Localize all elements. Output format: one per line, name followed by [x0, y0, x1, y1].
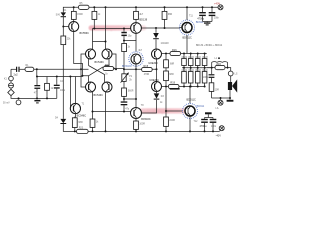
node rail dots	[73, 6, 75, 8]
svg-text:4700u: 4700u	[197, 18, 205, 21]
inductor L1 loop	[212, 57, 228, 67]
ground bar input	[34, 100, 40, 104]
wire output mid rail	[182, 67, 212, 69]
wire emitter bridge top pair	[93, 19, 106, 49]
resistor R8	[162, 7, 172, 28]
wire +V cap join / ground	[203, 21, 213, 24]
terminal shield	[9, 81, 14, 88]
svg-text:0R22: 0R22	[202, 70, 208, 72]
resistor R1 input	[25, 65, 34, 71]
svg-text:5V6: 5V6	[56, 15, 61, 17]
wire input line	[34, 68, 89, 70]
svg-text:2R2: 2R2	[216, 63, 221, 66]
resistor R17	[164, 54, 175, 72]
speaker LS1	[228, 76, 237, 98]
svg-text:+40V: +40V	[214, 2, 220, 6]
resistor R5 horizontal top	[78, 5, 89, 9]
wire driver top base line	[162, 53, 171, 55]
svg-text:R23: R23	[79, 127, 84, 129]
resistor R13 (tail bottom)	[90, 119, 99, 131]
svg-text:1N4148: 1N4148	[161, 43, 170, 45]
svg-text:BC546C: BC546C	[122, 64, 132, 68]
power transistor Q11 (blue ring)	[180, 20, 205, 40]
resistor R16	[170, 49, 181, 56]
terminal K1 input	[4, 69, 13, 80]
svg-text:68R: 68R	[169, 74, 174, 76]
resistor R14	[134, 119, 146, 132]
svg-text:0R22: 0R22	[188, 57, 194, 59]
wire Q6 emitter line	[141, 27, 179, 29]
svg-text:0R22: 0R22	[182, 70, 188, 72]
resistor R7 (VAS top)	[134, 7, 144, 22]
resistor R12 (under pot)	[122, 88, 134, 101]
svg-text:560R: 560R	[128, 91, 134, 93]
diode D2	[153, 28, 169, 49]
svg-text:0R22: 0R22	[188, 70, 194, 72]
wire bottom emitter rail	[162, 86, 205, 88]
svg-text:BC546C: BC546C	[95, 61, 105, 64]
wire base buses	[81, 54, 116, 87]
svg-text:R10: R10	[105, 64, 110, 67]
resistor R11	[122, 44, 143, 70]
svg-text:BD139 + BD911 + BD912: BD139 + BD911 + BD912	[196, 45, 223, 47]
svg-text:100R: 100R	[139, 124, 145, 126]
wire x166 divider	[165, 53, 167, 55]
resistor R21 damping	[207, 63, 231, 71]
ground diamond	[8, 88, 14, 96]
terminal -40V	[216, 126, 225, 138]
svg-text:LS: LS	[235, 74, 238, 76]
svg-text:BD139: BD139	[140, 19, 148, 22]
svg-text:0R22: 0R22	[195, 70, 201, 72]
wire Q11 leads	[180, 7, 187, 53]
wire Q12 collector	[189, 116, 191, 131]
wire VAS column down	[135, 70, 137, 108]
svg-text:R19: R19	[170, 82, 175, 85]
resistor R6	[45, 77, 54, 99]
wire Q1 base	[63, 26, 68, 28]
power transistor Q12 (blue ring)	[183, 98, 205, 123]
svg-text:BC556C: BC556C	[80, 32, 90, 35]
terminal LS-	[216, 98, 224, 110]
wire Q4 collector to VAS2 base line	[92, 92, 94, 119]
zobel cap C7	[203, 68, 215, 79]
cap C4	[54, 77, 66, 99]
svg-text:BD911: BD911	[197, 104, 205, 108]
wire tail x105.5	[105, 7, 107, 41]
svg-text:10R: 10R	[215, 90, 220, 92]
svg-text:68R: 68R	[170, 63, 175, 65]
trimmer P1	[121, 69, 133, 88]
wire Q6 collector	[135, 33, 137, 52]
resistor R20	[164, 111, 176, 131]
transistor Q13 current source	[70, 103, 86, 117]
svg-text:100n: 100n	[214, 17, 220, 19]
cap C5	[121, 101, 130, 111]
svg-text:68R: 68R	[78, 122, 83, 124]
resistor bank row1	[182, 54, 209, 68]
wire driver emitters	[156, 59, 158, 82]
svg-text:BC546C: BC546C	[77, 114, 87, 117]
zobel resistor R22	[209, 78, 219, 98]
transistor Q9 driver top	[149, 49, 162, 65]
svg-text:0R22: 0R22	[182, 57, 188, 59]
resistor R19	[168, 82, 179, 89]
resistor bank row2	[182, 68, 209, 87]
ground symbol -V	[205, 112, 214, 117]
resistor R24	[72, 118, 83, 132]
svg-text:R15: R15	[144, 65, 149, 68]
cap C10 (-V elco)	[200, 118, 208, 132]
resistor R23 (in rail)	[77, 127, 89, 133]
svg-text:BC546C: BC546C	[141, 118, 151, 121]
transistor Q6 VAS top BD139	[131, 19, 148, 34]
svg-text:470R: 470R	[144, 74, 150, 76]
transistor Q4 diff pair bottom-left	[86, 82, 96, 92]
wire bottom rail	[63, 124, 220, 131]
terminal +40V	[214, 2, 223, 10]
watermark band B	[140, 108, 188, 114]
wire Q12 emitter up	[189, 87, 191, 104]
wire cross-coupling X	[89, 59, 110, 82]
svg-text:0R22: 0R22	[195, 57, 201, 59]
terminal LS+	[228, 71, 238, 76]
wire mid signal line	[114, 68, 157, 71]
svg-text:100n: 100n	[60, 90, 66, 92]
resistor R15 (driver line)	[142, 65, 153, 76]
transistor Q1 BC556C	[69, 22, 89, 36]
terminal PE	[3, 100, 21, 105]
transistor Q5 diff pair bottom-right	[102, 82, 112, 92]
cap C11 (-V film)	[210, 118, 217, 132]
wire bias bottom	[135, 64, 137, 69]
svg-text:100n: 100n	[211, 126, 217, 128]
cap C6	[170, 88, 180, 90]
svg-text:68R: 68R	[168, 14, 173, 16]
cap C8 (+V elco)	[197, 7, 206, 21]
resistor R10 (X zone)	[103, 64, 114, 76]
resistor R3 (tail top pair)	[92, 7, 101, 19]
svg-text:220R: 220R	[169, 120, 175, 122]
bottom rail dots	[74, 130, 76, 132]
zener D1	[56, 10, 67, 26]
wire x166 to Q12 base	[166, 87, 183, 112]
transistor Q2 diff pair top-left	[86, 49, 96, 59]
transistor Q8 VAS bottom	[131, 105, 151, 121]
diode D3	[141, 92, 165, 114]
wire Q1 collector down	[74, 31, 89, 82]
svg-text:BD911C: BD911C	[187, 98, 196, 101]
wire feedback line	[37, 69, 83, 76]
transistor Q3 diff pair top-right	[102, 49, 112, 59]
svg-text:50 mV: 50 mV	[3, 102, 10, 104]
svg-text:R16: R16	[172, 49, 177, 52]
wire mid node y99	[124, 98, 136, 100]
cap C9 (+V film)	[209, 7, 220, 21]
svg-text:0R22: 0R22	[202, 57, 208, 59]
resistor R4 (under node)	[61, 27, 71, 119]
svg-text:4700u: 4700u	[200, 125, 208, 128]
ground symbol +V	[204, 22, 210, 25]
cap C6 miller	[121, 29, 132, 44]
svg-text:MJE350: MJE350	[150, 79, 160, 82]
svg-text:LS-: LS-	[216, 108, 220, 110]
wire Q13 leads	[70, 77, 75, 118]
watermark band A	[89, 25, 147, 31]
wire ground line input	[11, 96, 57, 99]
wire Q5 collector down	[105, 92, 107, 131]
svg-text:BC546C: BC546C	[94, 94, 104, 97]
wire top rail	[63, 7, 218, 12]
svg-text:2u2: 2u2	[14, 74, 19, 77]
zener D4	[55, 118, 66, 124]
cap C2 (elco)	[34, 77, 40, 99]
resistor R2 (emitter Q1)	[71, 7, 83, 21]
transistor Q7 bias (blue ring)	[122, 52, 143, 68]
ground symbol speaker	[227, 98, 234, 102]
input cap C1	[11, 67, 25, 77]
wire speaker ground line	[212, 97, 231, 99]
transistor Q10 driver bottom	[150, 79, 162, 91]
wire base line Q6	[93, 29, 131, 42]
svg-text:100n: 100n	[203, 77, 209, 79]
resistor R18	[164, 71, 174, 87]
svg-text:-40V: -40V	[216, 133, 222, 137]
wire top emitter rail	[181, 53, 207, 55]
svg-text:150R: 150R	[77, 14, 83, 16]
wire miller node	[124, 40, 136, 42]
